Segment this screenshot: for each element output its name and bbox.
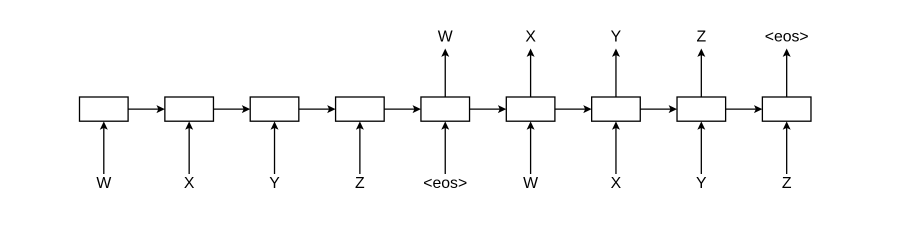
wire: input arrow into cell 5: [441, 121, 449, 174]
wire: hidden-state arrow from cell 4 to cell 5: [384, 105, 421, 113]
svg-text:X: X: [525, 29, 536, 46]
wire: input arrow into cell 1: [100, 121, 108, 174]
wire: hidden-state arrow from cell 5 to cell 6: [470, 105, 507, 113]
wire: input arrow into cell 6: [527, 121, 535, 174]
wire: hidden-state arrow from cell 2 to cell 3: [213, 105, 250, 113]
wire: input arrow into cell 4: [356, 121, 364, 174]
svg-text:X: X: [611, 175, 622, 192]
svg-text:Z: Z: [782, 175, 792, 192]
svg-text:Z: Z: [355, 175, 365, 192]
svg-text:Y: Y: [269, 175, 280, 192]
wire: hidden-state arrow from cell 3 to cell 4: [299, 105, 336, 113]
wire: hidden-state arrow from cell 6 to cell 7: [555, 105, 592, 113]
svg-text:W: W: [523, 175, 538, 192]
svg-text:<eos>: <eos>: [765, 29, 809, 46]
svg-text:Y: Y: [696, 175, 707, 192]
RNN cell box 1: [80, 97, 129, 121]
wire: output arrow out of cell 8: [697, 49, 705, 98]
svg-text:Y: Y: [611, 29, 622, 46]
RNN cell box 8: [677, 97, 726, 121]
wire: input arrow into cell 9: [783, 121, 791, 174]
RNN cell box 7: [592, 97, 641, 121]
wire: output arrow out of cell 7: [612, 49, 620, 98]
wire: input arrow into cell 2: [185, 121, 193, 174]
svg-text:W: W: [96, 175, 111, 192]
wire: output arrow out of cell 6: [527, 49, 535, 98]
RNN cell box 6: [506, 97, 555, 121]
wire: hidden-state arrow from cell 1 to cell 2: [128, 105, 165, 113]
wire: input arrow into cell 8: [697, 121, 705, 174]
RNN cell box 4: [336, 97, 385, 121]
svg-text:X: X: [184, 175, 195, 192]
RNN cell box 2: [165, 97, 214, 121]
wire: hidden-state arrow from cell 7 to cell 8: [640, 105, 677, 113]
svg-text:W: W: [438, 29, 453, 46]
RNN cell box 9: [762, 97, 811, 121]
RNN cell box 5: [421, 97, 470, 121]
wire: hidden-state arrow from cell 8 to cell 9: [726, 105, 763, 113]
wire: input arrow into cell 3: [271, 121, 279, 174]
RNN cell box 3: [250, 97, 299, 121]
wire: output arrow out of cell 5: [441, 49, 449, 98]
svg-text:Z: Z: [696, 29, 706, 46]
wire: output arrow out of cell 9: [783, 49, 791, 98]
wire: input arrow into cell 7: [612, 121, 620, 174]
svg-text:<eos>: <eos>: [423, 175, 467, 192]
